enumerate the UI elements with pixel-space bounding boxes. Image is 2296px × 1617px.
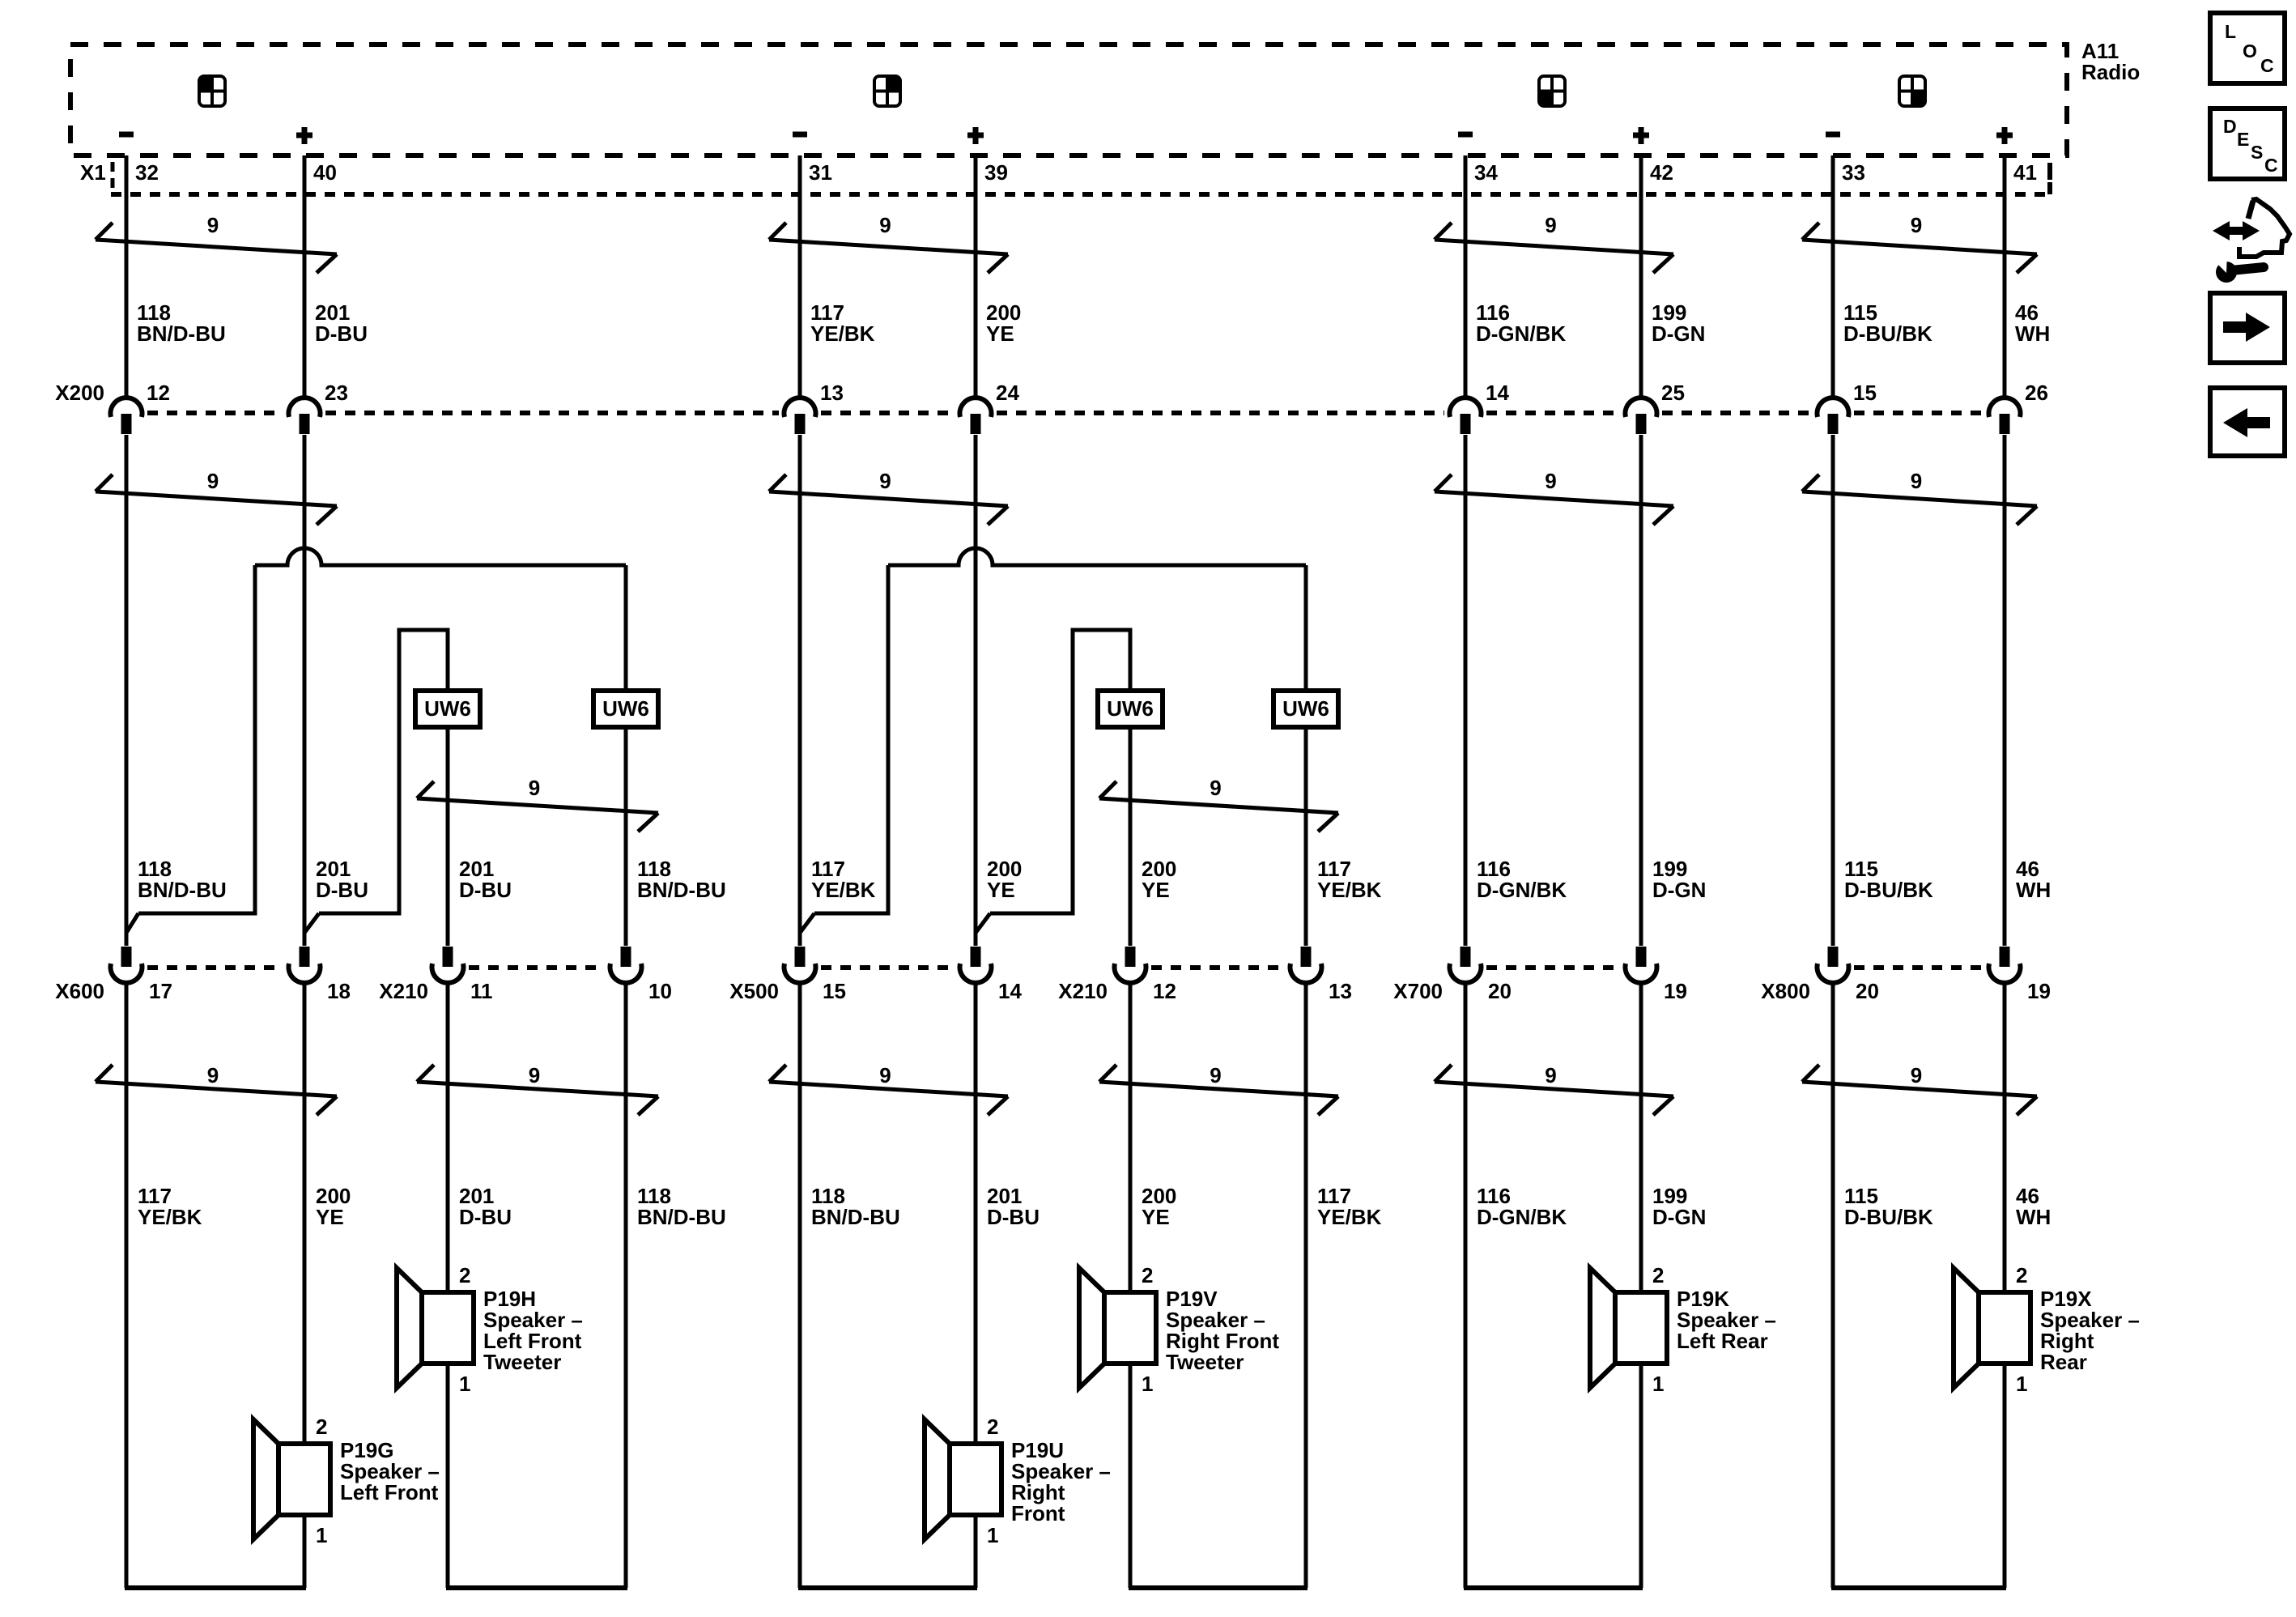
svg-text:41: 41 [2013, 160, 2037, 185]
svg-text:10: 10 [648, 979, 672, 1003]
svg-text:31: 31 [809, 160, 832, 185]
svg-text:2: 2 [1142, 1263, 1153, 1287]
svg-text:9: 9 [879, 469, 891, 493]
svg-text:1: 1 [2016, 1372, 2027, 1396]
svg-text:2: 2 [987, 1415, 998, 1439]
svg-text:C: C [2260, 55, 2274, 76]
svg-text:18: 18 [327, 979, 351, 1003]
svg-text:X500: X500 [729, 979, 779, 1003]
svg-text:9: 9 [207, 1063, 219, 1087]
svg-text:YE/BK: YE/BK [811, 878, 876, 902]
svg-text:D-BU/BK: D-BU/BK [1844, 878, 1933, 902]
svg-text:14: 14 [998, 979, 1022, 1003]
svg-text:UW6: UW6 [1107, 696, 1154, 721]
svg-text:9: 9 [1545, 469, 1556, 493]
svg-text:Front: Front [1011, 1501, 1065, 1526]
svg-text:X200: X200 [55, 381, 104, 405]
svg-text:WH: WH [2016, 878, 2051, 902]
svg-text:YE: YE [1142, 1205, 1170, 1229]
svg-text:19: 19 [1664, 979, 1687, 1003]
svg-text:X700: X700 [1393, 979, 1443, 1003]
svg-text:2: 2 [316, 1415, 327, 1439]
svg-text:14: 14 [1486, 381, 1509, 405]
svg-text:Radio: Radio [2081, 60, 2140, 84]
svg-text:X210: X210 [1058, 979, 1108, 1003]
svg-text:D: D [2223, 116, 2237, 137]
svg-text:17: 17 [149, 979, 172, 1003]
svg-text:9: 9 [1545, 1063, 1556, 1087]
svg-text:9: 9 [207, 213, 219, 237]
svg-text:1: 1 [987, 1523, 998, 1547]
svg-text:C: C [2264, 155, 2278, 176]
svg-text:D-BU: D-BU [316, 878, 368, 902]
svg-text:UW6: UW6 [1282, 696, 1329, 721]
svg-text:23: 23 [325, 381, 348, 405]
svg-text:9: 9 [529, 1063, 540, 1087]
svg-text:2: 2 [459, 1263, 470, 1287]
svg-text:D-BU/BK: D-BU/BK [1843, 321, 1932, 346]
svg-text:D-GN: D-GN [1652, 321, 1705, 346]
svg-text:YE/BK: YE/BK [1317, 878, 1382, 902]
svg-text:D-GN: D-GN [1652, 1205, 1706, 1229]
svg-text:YE/BK: YE/BK [810, 321, 875, 346]
svg-text:1: 1 [1652, 1372, 1664, 1396]
svg-text:13: 13 [820, 381, 844, 405]
svg-text:1: 1 [316, 1523, 327, 1547]
svg-text:19: 19 [2027, 979, 2051, 1003]
svg-text:15: 15 [1853, 381, 1877, 405]
svg-text:32: 32 [135, 160, 159, 185]
svg-text:9: 9 [1210, 1063, 1221, 1087]
svg-text:20: 20 [1488, 979, 1512, 1003]
svg-text:YE: YE [986, 321, 1014, 346]
svg-text:Left Front: Left Front [340, 1480, 439, 1504]
svg-text:BN/D-BU: BN/D-BU [138, 878, 227, 902]
svg-text:D-BU: D-BU [987, 1205, 1040, 1229]
svg-text:D-GN/BK: D-GN/BK [1476, 321, 1566, 346]
svg-text:9: 9 [1911, 213, 1922, 237]
svg-text:E: E [2237, 129, 2249, 150]
svg-text:39: 39 [984, 160, 1008, 185]
svg-text:YE/BK: YE/BK [1317, 1205, 1382, 1229]
svg-text:20: 20 [1856, 979, 1879, 1003]
svg-text:X1: X1 [80, 160, 106, 185]
svg-text:40: 40 [313, 160, 337, 185]
svg-text:42: 42 [1650, 160, 1673, 185]
svg-text:Tweeter: Tweeter [483, 1350, 561, 1374]
svg-text:YE: YE [1142, 878, 1170, 902]
svg-text:L: L [2225, 21, 2236, 42]
svg-text:YE: YE [987, 878, 1015, 902]
svg-text:1: 1 [1142, 1372, 1153, 1396]
svg-text:YE/BK: YE/BK [138, 1205, 202, 1229]
svg-text:33: 33 [1842, 160, 1865, 185]
svg-text:UW6: UW6 [424, 696, 471, 721]
svg-text:D-GN: D-GN [1652, 878, 1706, 902]
svg-text:X210: X210 [379, 979, 428, 1003]
svg-text:26: 26 [2025, 381, 2048, 405]
svg-text:YE: YE [316, 1205, 344, 1229]
svg-text:D-GN/BK: D-GN/BK [1477, 878, 1567, 902]
svg-text:25: 25 [1661, 381, 1685, 405]
svg-text:S: S [2251, 142, 2263, 163]
svg-text:9: 9 [879, 1063, 891, 1087]
svg-text:9: 9 [1545, 213, 1556, 237]
svg-text:Tweeter: Tweeter [1166, 1350, 1244, 1374]
svg-text:12: 12 [147, 381, 170, 405]
svg-text:X600: X600 [55, 979, 104, 1003]
svg-text:D-BU: D-BU [315, 321, 368, 346]
svg-text:BN/D-BU: BN/D-BU [137, 321, 226, 346]
svg-text:X800: X800 [1761, 979, 1810, 1003]
svg-text:9: 9 [1210, 776, 1221, 800]
svg-text:BN/D-BU: BN/D-BU [811, 1205, 900, 1229]
svg-text:11: 11 [470, 979, 493, 1003]
svg-text:Rear: Rear [2040, 1350, 2087, 1374]
svg-text:2: 2 [1652, 1263, 1664, 1287]
svg-text:1: 1 [459, 1372, 470, 1396]
svg-text:9: 9 [529, 776, 540, 800]
svg-text:13: 13 [1329, 979, 1352, 1003]
svg-text:34: 34 [1474, 160, 1498, 185]
svg-text:WH: WH [2015, 321, 2050, 346]
svg-text:2: 2 [2016, 1263, 2027, 1287]
svg-text:O: O [2243, 40, 2257, 62]
svg-text:UW6: UW6 [602, 696, 649, 721]
svg-text:9: 9 [207, 469, 219, 493]
svg-text:9: 9 [879, 213, 891, 237]
svg-text:BN/D-BU: BN/D-BU [637, 1205, 726, 1229]
svg-text:D-BU/BK: D-BU/BK [1844, 1205, 1933, 1229]
svg-text:Left Rear: Left Rear [1677, 1329, 1768, 1353]
svg-text:12: 12 [1153, 979, 1176, 1003]
svg-text:BN/D-BU: BN/D-BU [637, 878, 726, 902]
svg-text:9: 9 [1911, 1063, 1922, 1087]
svg-text:24: 24 [996, 381, 1019, 405]
svg-text:D-BU: D-BU [459, 878, 512, 902]
svg-text:D-GN/BK: D-GN/BK [1477, 1205, 1567, 1229]
svg-text:D-BU: D-BU [459, 1205, 512, 1229]
svg-text:15: 15 [823, 979, 846, 1003]
svg-text:9: 9 [1911, 469, 1922, 493]
svg-text:WH: WH [2016, 1205, 2051, 1229]
